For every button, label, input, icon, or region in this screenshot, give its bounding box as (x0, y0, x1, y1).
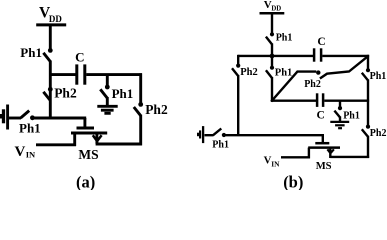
junction dot top rail (b) (270, 54, 275, 59)
label Ph1 mid chain (b) (275, 67, 293, 78)
switch Ph1 VDD-chain blade (b) (266, 37, 272, 45)
diagonal wire mid-rail corner up to Ph2 switch (b) (271, 72, 316, 102)
wire: node A to capacitor C (a) (49, 73, 76, 76)
wire: gate lead down (b) (322, 135, 324, 142)
wire: VIN to source (a) (36, 143, 76, 146)
svg-text:V: V (15, 144, 26, 160)
transistor MS channel bar (b) (308, 146, 340, 149)
transistor MS body arrow right stroke (b) (330, 149, 334, 153)
input source symbol nub plate (b) (197, 133, 199, 137)
wire: gate node line to transistor MS (a) (34, 117, 87, 120)
switch Ph2 right-branch blade (a) (134, 107, 141, 116)
switch Ph2 blade and wire up to top-rail corner (b) (320, 56, 368, 78)
svg-text:C: C (75, 50, 84, 65)
switch Ph1 VDD-chain contact dot (b) (270, 32, 274, 36)
wire: drain to switch Ph2 branch (a) (96, 143, 142, 146)
wire: left branch down to input line (b) (237, 75, 239, 135)
svg-text:Ph1: Ph1 (276, 33, 293, 44)
input switch Ph1 contact dot (a) (30, 115, 35, 120)
wire: switch Ph1 to ground (a) (106, 97, 109, 106)
label Ph1 ground branch (b) (343, 110, 360, 121)
svg-text:Ph2: Ph2 (145, 102, 168, 117)
wire: mid chain junction to switch Ph1 (b) (271, 56, 273, 66)
top capacitor C right plate (b) (320, 48, 323, 61)
node VDD label (b) (264, 0, 282, 13)
wire: drain wire horizontal (b) (330, 156, 369, 158)
svg-text:MS: MS (78, 147, 98, 162)
svg-text:IN: IN (271, 159, 280, 168)
wire: capacitor C to node B (a) (86, 73, 142, 76)
wire: right branch down through mid rail (b) (367, 79, 369, 125)
wire: VDD bar down to switch Ph1 (b) (271, 13, 273, 33)
svg-text:C: C (317, 36, 325, 48)
label Ph2 right branch (a) (145, 102, 168, 117)
switch Ph1 blade (a) (43, 53, 50, 62)
input source symbol mid plate (b) (199, 130, 201, 138)
transistor MS gate bar (b) (315, 142, 329, 145)
ground symbol (b) (330, 122, 349, 128)
svg-text:Ph2: Ph2 (304, 79, 321, 90)
svg-text:Ph2: Ph2 (54, 86, 77, 101)
label Ph2 diagonal switch (b) (304, 79, 321, 90)
svg-text:Ph1: Ph1 (19, 121, 41, 136)
svg-text:DD: DD (271, 6, 281, 13)
switch Ph1 ground-branch blade (b) (334, 111, 340, 118)
wire: switch Ph2 down to drain wire (b) (367, 136, 369, 158)
transistor MS body arrow right stroke (a) (97, 135, 102, 141)
svg-text:Ph2: Ph2 (240, 67, 258, 78)
label Ph2 mid left (a) (54, 86, 77, 101)
node VDD label (a) (39, 5, 62, 25)
wire: gate node line to transistor MS (b) (225, 134, 324, 136)
label Ph1 ground branch (a) (112, 86, 134, 101)
switch Ph2 left-branch contact dot (b) (236, 64, 240, 68)
switch Ph2 right-branch contact dot (a) (138, 102, 143, 107)
wire: input capacitor to switch Ph1 (b) (205, 134, 214, 136)
svg-text:(a): (a) (76, 173, 95, 190)
wire: input capacitor to switch Ph1 (a) (9, 117, 21, 120)
power supply bar VDD (b) (260, 12, 285, 15)
node VIN label (b) (264, 155, 280, 169)
svg-text:DD: DD (49, 14, 62, 24)
mid capacitor C left plate (b) (316, 93, 319, 107)
svg-text:Ph2: Ph2 (370, 128, 387, 139)
input switch Ph1 blade (b) (213, 129, 221, 136)
switch Ph2 mid-left blade (a) (43, 92, 50, 101)
label Ph2 left branch (b) (240, 67, 258, 78)
top capacitor C label (b) (317, 36, 325, 48)
input source symbol tall plate (a) (6, 105, 9, 130)
transistor MS drain stem (b) (329, 148, 331, 158)
input source symbol mid plate (a) (2, 109, 5, 123)
switch Ph1 right-branch contact dot (b) (366, 68, 370, 72)
svg-text:Ph1: Ph1 (370, 71, 387, 82)
node VIN label (a) (15, 144, 37, 160)
switch Ph1 ground-branch contact dot (b) (338, 106, 342, 110)
mid capacitor C right plate (b) (322, 93, 325, 107)
wire: switch Ph2 down to drain wire (a) (139, 115, 142, 146)
capacitor C right plate (a) (83, 64, 86, 84)
wire: switch Ph1 to node A (a) (49, 61, 52, 120)
switch Ph2 diagonal contact dot (b) (316, 70, 320, 74)
wire: switch Ph1 to top rail (b) (271, 43, 273, 57)
power supply bar VDD (a) (36, 23, 66, 26)
svg-text:Ph1: Ph1 (112, 86, 134, 101)
switch Ph1 ground-branch blade (a) (100, 89, 107, 98)
transistor MS label (a) (78, 147, 98, 162)
switch Ph1 mid-chain contact dot (b) (270, 66, 274, 70)
switch Ph1 mid-chain blade (b) (266, 70, 272, 78)
label Ph1 input switch (b) (212, 140, 229, 151)
svg-text:Ph1: Ph1 (275, 67, 293, 78)
input source symbol tall plate (b) (202, 126, 204, 143)
panel label (b) (283, 173, 303, 192)
wire: node B down right branch to switch Ph2 (a) (139, 73, 142, 103)
right branch vertical top (b) (367, 55, 369, 69)
wire: switch Ph1 to ground (b) (339, 116, 341, 121)
svg-text:Ph1: Ph1 (20, 45, 42, 60)
transistor MS label (b) (316, 161, 332, 172)
input source symbol nub plate (a) (0, 114, 2, 119)
transistor MS body arrow left stroke (b) (327, 149, 330, 153)
transistor MS source lead (b) (308, 148, 310, 159)
svg-text:Ph1: Ph1 (343, 110, 360, 121)
svg-text:(b): (b) (283, 173, 303, 190)
wire: node B stub down to switch Ph1 ground branch (a) (106, 75, 109, 86)
transistor MS drain stem (a) (95, 133, 98, 144)
wire: switch Ph1 down to mid rail corner (b) (271, 77, 273, 102)
mid capacitor C label (b) (317, 109, 325, 121)
mid rail wire right of capacitor (b) (324, 99, 369, 101)
input switch Ph1 contact dot (b) (222, 133, 226, 137)
switch Ph1 ground-branch contact dot (a) (105, 85, 110, 90)
switch Ph1 contact dot (a) (48, 48, 53, 53)
switch Ph2 right-branch blade (b) (362, 129, 368, 137)
ground symbol (a) (97, 106, 117, 113)
panel label (a) (76, 173, 95, 192)
wire: VIN to source (b) (281, 156, 310, 158)
svg-text:Ph1: Ph1 (212, 140, 229, 151)
label Ph2 right branch (b) (370, 128, 387, 139)
switch Ph1 right-branch blade (b) (362, 73, 368, 81)
svg-text:MS: MS (316, 161, 332, 172)
switch Ph2 right-branch contact dot (b) (366, 125, 370, 129)
svg-text:IN: IN (26, 149, 36, 159)
capacitor C left plate (a) (75, 64, 78, 84)
switch Ph2 left-branch blade (b) (232, 68, 238, 76)
top rail wire right of capacitor (b) (322, 55, 369, 57)
svg-text:C: C (317, 109, 325, 121)
top capacitor C left plate (b) (313, 48, 316, 61)
switch Ph2 mid-left contact dot (a) (48, 87, 53, 92)
wire: VDD bar down to switch Ph1 (a) (49, 25, 52, 49)
input switch Ph1 blade (a) (21, 111, 30, 118)
label Ph1 top (a) (20, 45, 42, 60)
label Ph1 right branch (b) (370, 71, 387, 82)
top rail wire left of capacitor (b) (238, 55, 313, 57)
left branch vertical top (b) (237, 55, 239, 64)
capacitor C label (a) (75, 50, 84, 65)
wire: ground branch stub from mid rail (b) (339, 101, 341, 107)
label Ph1 VDD chain (b) (276, 33, 293, 44)
transistor MS body arrow left stroke (a) (93, 135, 97, 141)
transistor MS channel bar (a) (71, 132, 107, 135)
transistor MS gate bar (a) (77, 127, 95, 130)
mid rail wire left of capacitor (b) (271, 99, 316, 101)
label Ph1 input switch (a) (19, 121, 41, 136)
wire: gate lead down (a) (83, 118, 86, 127)
transistor MS source lead (a) (73, 133, 76, 146)
